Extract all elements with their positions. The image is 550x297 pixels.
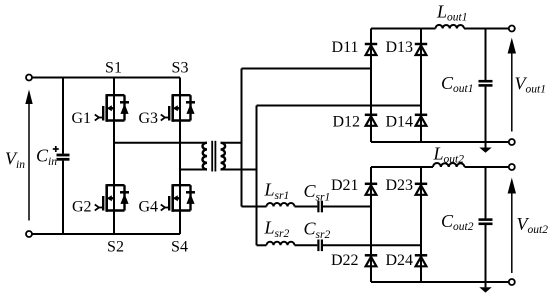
svg-text:G4: G4 <box>138 199 158 216</box>
inductor Lsr2 <box>267 242 295 246</box>
transformer T1 secondary winding <box>221 143 226 170</box>
capacitor Csr2 <box>318 240 322 252</box>
svg-text:G1: G1 <box>71 110 91 127</box>
svg-text:Vin: Vin <box>5 149 25 172</box>
wire rectifier1 top rail right <box>464 28 509 30</box>
svg-text:D14: D14 <box>385 114 413 131</box>
output terminal Vout1 - <box>509 139 515 145</box>
input terminal bottom-left <box>26 231 32 237</box>
output terminal Vout2 + <box>509 164 515 170</box>
svg-text:Lsr1: Lsr1 <box>264 180 290 203</box>
ground output 1 <box>479 148 491 153</box>
diode D22 <box>365 255 377 266</box>
svg-text:S1: S1 <box>105 60 122 77</box>
wire rectifier1 top rail <box>371 28 436 30</box>
wire rectifier2 top rail right <box>465 166 509 168</box>
wire sr1 branch right <box>323 206 371 208</box>
input terminal top-left <box>26 75 32 81</box>
wire rectifier1 bottom rail <box>371 141 509 143</box>
svg-text:Csr1: Csr1 <box>304 181 331 204</box>
svg-text:D24: D24 <box>385 252 413 269</box>
wire rectifier2 left leg <box>370 167 372 282</box>
wire rectifier2 bottom rail <box>371 281 509 283</box>
wire node B vertical <box>256 106 258 246</box>
svg-text:Csr2: Csr2 <box>304 219 331 242</box>
MOSFET S2 switch <box>95 184 129 212</box>
wire top input rail <box>32 77 180 79</box>
MOSFET S3 switch <box>161 94 195 122</box>
diode D24 <box>415 255 427 266</box>
svg-text:Vout1: Vout1 <box>515 74 546 96</box>
capacitor Cout1 <box>479 29 493 148</box>
diode D13 <box>415 44 427 55</box>
wire rectifier1 right leg <box>420 29 422 143</box>
MOSFET S1 switch <box>95 94 129 122</box>
svg-text:D21: D21 <box>331 177 359 194</box>
wire sr2 branch right <box>323 244 421 246</box>
svg-text:S2: S2 <box>107 239 124 256</box>
transformer T1 primary winding <box>203 143 208 170</box>
svg-text:G2: G2 <box>72 199 92 216</box>
wire rectifier2 top rail <box>371 166 433 168</box>
svg-text:Cout2: Cout2 <box>441 211 474 233</box>
wire secondary top lead <box>221 142 242 144</box>
wire rectifier1 left leg <box>370 29 372 143</box>
inductor Lout2 <box>433 163 465 167</box>
svg-text:D11: D11 <box>332 39 359 56</box>
svg-text:D23: D23 <box>385 177 413 194</box>
capacitor Cout2 <box>479 167 493 287</box>
svg-text:Lout1: Lout1 <box>436 2 467 24</box>
output terminal Vout2 - <box>509 279 515 285</box>
MOSFET S4 switch <box>161 184 195 212</box>
wire primary top lead <box>114 142 207 144</box>
svg-text:Lout2: Lout2 <box>433 144 465 166</box>
svg-text:D12: D12 <box>332 114 360 131</box>
ground output 2 <box>479 287 491 292</box>
wire node B to rectifier 1 input <box>257 105 422 107</box>
Vout2 arrow <box>508 178 516 273</box>
svg-text:Vout2: Vout2 <box>517 214 549 236</box>
wire sr1 branch left <box>242 206 267 208</box>
capacitor Cin <box>53 78 70 235</box>
svg-text:D22: D22 <box>331 252 359 269</box>
diode D23 <box>415 184 427 195</box>
diode D21 <box>365 184 377 195</box>
inductor Lsr1 <box>267 203 295 206</box>
Vout1 arrow <box>508 38 516 132</box>
diode D14 <box>415 115 427 126</box>
svg-text:Cout1: Cout1 <box>441 73 473 95</box>
svg-text:G3: G3 <box>138 110 158 127</box>
wire node A vertical <box>241 69 243 207</box>
capacitor Csr1 <box>318 201 322 213</box>
wire rectifier2 right leg <box>420 167 422 282</box>
wire sr1 branch middle <box>295 206 318 208</box>
transformer core <box>212 141 215 172</box>
svg-text:S3: S3 <box>172 60 189 77</box>
wire bottom input rail <box>32 233 180 235</box>
wire bridge leg A (S1/S2) <box>113 78 115 235</box>
wire sr2 branch left <box>257 244 267 246</box>
wire sr2 branch middle <box>295 244 318 246</box>
svg-text:D13: D13 <box>385 39 413 56</box>
wire node A to rectifier 1 input <box>242 68 372 70</box>
diode D11 <box>365 44 377 55</box>
Vin arrow <box>25 90 32 221</box>
inductor Lout1 <box>436 25 465 29</box>
diode D12 <box>365 115 377 126</box>
wire primary bottom lead <box>180 169 207 171</box>
svg-text:S4: S4 <box>171 239 188 256</box>
output terminal Vout1 + <box>509 26 515 32</box>
wire bridge leg B (S3/S4) <box>179 78 181 235</box>
wire secondary bottom lead <box>221 169 257 171</box>
svg-text:Lsr2: Lsr2 <box>264 218 290 241</box>
